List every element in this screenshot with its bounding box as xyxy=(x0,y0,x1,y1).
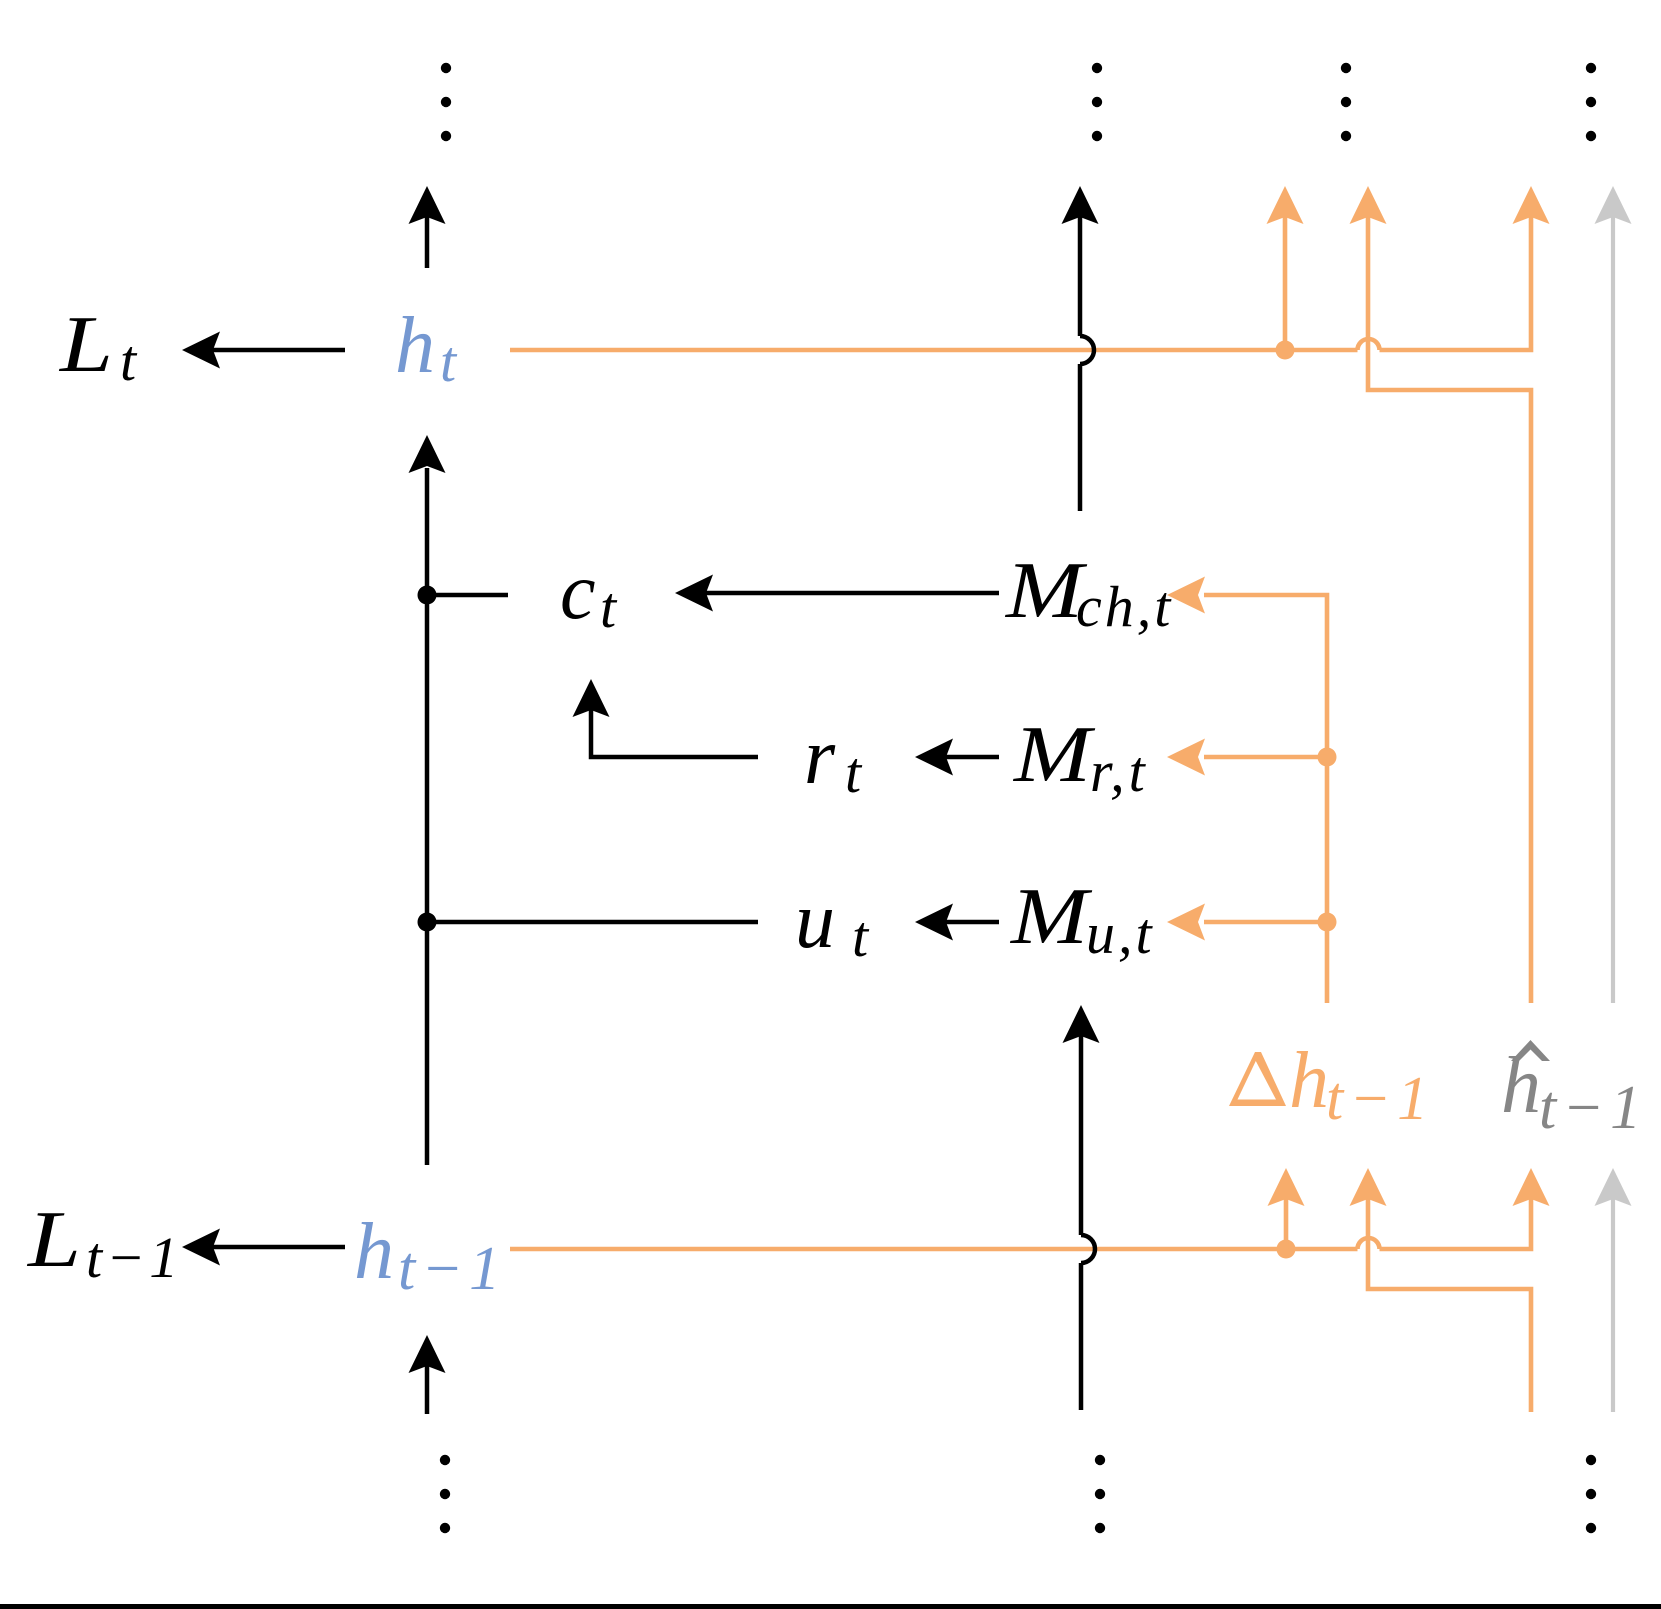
svg-text:r: r xyxy=(804,713,836,801)
orange wire into M_r,t xyxy=(1204,755,1327,760)
gray wire up toward h-hat_{t-1} xyxy=(1611,1199,1615,1412)
label L_{t-1} xyxy=(27,1196,182,1290)
wire h_{t-1} to L_{t-1} xyxy=(211,1245,345,1250)
bottom rule xyxy=(0,1604,1661,1609)
label M_u,t xyxy=(1010,873,1155,966)
vdots below middle column xyxy=(1095,1455,1105,1533)
svg-text:M: M xyxy=(1013,711,1096,799)
black middle wire up from M_ch to next layer, hops over orange h_t wire at (1080,350) xyxy=(1080,215,1094,511)
label M_r,t xyxy=(1013,711,1149,804)
label h_{t-1} (blue) xyxy=(354,1208,506,1303)
svg-text:M: M xyxy=(1010,873,1093,961)
wire up into h_{t-1} from below xyxy=(425,1366,430,1414)
orange wire from h_{t-1} to the right, hop at x=1368, corner up at x=1531 xyxy=(510,1199,1531,1249)
svg-text:ch,t: ch,t xyxy=(1076,574,1173,639)
label r_t xyxy=(804,713,863,805)
vdots above h_t column xyxy=(441,63,451,141)
orange wire into M_u,t xyxy=(1204,920,1327,925)
orange wire from h_t to the right (recurrent output), with hop gap at x=1368, corner up at x=1531 xyxy=(510,217,1531,350)
svg-text:h: h xyxy=(354,1208,394,1296)
svg-text:t: t xyxy=(852,904,870,969)
label h_t (blue) xyxy=(395,302,458,394)
svg-text:u,t: u,t xyxy=(1086,901,1155,966)
wire M_u,t to u_t xyxy=(946,920,999,925)
svg-text:h: h xyxy=(1501,1042,1541,1130)
svg-text:t−1: t−1 xyxy=(86,1225,182,1290)
hop arc bulging right xyxy=(1080,336,1094,364)
svg-text:t−1: t−1 xyxy=(398,1235,506,1303)
stub wire from left column to c_t xyxy=(427,593,508,598)
svg-text:h: h xyxy=(1289,1037,1329,1125)
svg-text:t: t xyxy=(600,575,618,640)
label L_t xyxy=(59,301,138,393)
orange wire up at x=1368 (from wrap-around), corner right at y=390, down at x=1531 xyxy=(1368,217,1531,1003)
wire h_t to L_t xyxy=(211,348,345,353)
wire r_t to c_t (L-shaped) xyxy=(591,710,758,757)
svg-text:t: t xyxy=(120,328,138,393)
hop arc bulging right xyxy=(1081,1235,1095,1263)
svg-text:c: c xyxy=(560,548,596,636)
left column wire from h_{t-1} up to h_t xyxy=(425,468,430,1165)
svg-text:t: t xyxy=(440,329,458,394)
arrowhead up orange at (1531,186) xyxy=(1513,186,1550,224)
label u_t xyxy=(795,877,870,969)
hop arc of horizontal wire over vertical wire at (1368,350) xyxy=(1358,339,1380,350)
svg-text:t: t xyxy=(845,740,863,805)
label c_t xyxy=(560,548,618,640)
label delta-h_{t-1} (orange) xyxy=(1229,1037,1434,1133)
junction dot on h_{t-1} wire at x=1286 xyxy=(1277,1240,1296,1259)
label M_ch,t xyxy=(1005,547,1174,639)
black middle wire up to M_u,t, hops over orange h_{t-1} wire at (1081,1249) xyxy=(1081,1036,1095,1410)
svg-text:r,t: r,t xyxy=(1090,739,1149,804)
svg-text:h: h xyxy=(395,302,435,390)
orange branch arrow up toward delta-h_{t-1} xyxy=(1284,1199,1289,1249)
svg-text:t−1: t−1 xyxy=(1326,1065,1434,1133)
orange branch arrow up at x=1285 xyxy=(1283,217,1288,350)
junction dot on orange branch at u row xyxy=(1318,913,1337,932)
junction dot on h_t wire at x=1285 xyxy=(1276,341,1295,360)
orange wire from delta-h branch into M_ch,t xyxy=(1204,595,1327,1003)
arrowhead up at (427,186) xyxy=(409,186,446,224)
gray wire h-hat up column xyxy=(1611,217,1615,1003)
wire h_t output up to next layer xyxy=(425,215,430,268)
orange wire up toward delta-h_{t-1} at x=1368 from wrap-around below xyxy=(1368,1199,1531,1412)
svg-text:L: L xyxy=(59,301,113,389)
vdots above h-hat column xyxy=(1586,63,1596,141)
arrowhead left at (182,350) xyxy=(182,332,220,369)
wire from left column to u_t xyxy=(427,920,758,925)
svg-text:u: u xyxy=(795,877,835,965)
junction dot on left column at c_t branch xyxy=(418,586,437,605)
vdots above delta-h column xyxy=(1341,63,1351,141)
vdots below h_{t-1} column xyxy=(440,1455,450,1533)
wire M_r,t to r_t xyxy=(946,755,999,760)
label h-hat_{t-1} (gray) xyxy=(1501,1040,1647,1142)
svg-text:t−1: t−1 xyxy=(1539,1074,1647,1142)
wire M_ch,t to c_t xyxy=(706,591,999,596)
svg-text:L: L xyxy=(27,1196,81,1284)
vdots below right column xyxy=(1586,1455,1596,1533)
junction dot on left column at u_t branch xyxy=(418,913,437,932)
vdots above middle M column xyxy=(1092,63,1102,141)
hop arc of horizontal wire over vertical at (1368,1249) xyxy=(1358,1238,1380,1249)
junction dot on orange branch at r row xyxy=(1318,748,1337,767)
